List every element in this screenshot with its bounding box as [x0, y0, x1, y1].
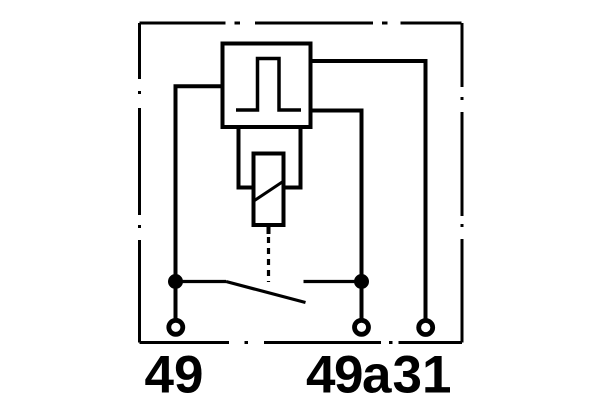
- wire: U1 bottom left pin to coil K1 top-left: [239, 127, 254, 188]
- wire: node 49a down to pin circle: [360, 282, 364, 319]
- relay coil K1 diagonal stroke: [255, 182, 284, 201]
- wire: U1 lower right pin to junction at terminal 49a: [311, 111, 362, 283]
- svg-text:49: 49: [145, 346, 204, 400]
- mechanical actuation link (dashed): [267, 237, 270, 282]
- terminal 49 pin circle: [169, 320, 183, 334]
- node: junction dot on terminal 49 wire: [168, 274, 183, 289]
- node: junction dot on terminal 49a wire: [354, 274, 369, 289]
- switch S1 fixed contact wire to node 49a: [304, 280, 362, 283]
- svg-text:49a: 49a: [306, 346, 392, 400]
- pulse generator U1 box: [223, 44, 311, 128]
- wire: coil K1 bottom stub: [267, 225, 271, 234]
- relay housing outline: bottom edge (dash-dot): [140, 341, 463, 344]
- relay housing outline: right edge (dash-dot): [461, 23, 464, 343]
- relay coil K1 (box): [254, 154, 284, 226]
- wire: node 49 down to pin circle: [174, 282, 178, 319]
- relay housing outline: left edge (dash-dot): [138, 23, 141, 343]
- relay housing outline: top edge (dash-dot): [140, 22, 463, 25]
- svg-text:31: 31: [393, 346, 452, 400]
- switch S1 common wire from node 49: [176, 280, 227, 283]
- wire: U1 left pin to junction at terminal 49: [176, 86, 223, 282]
- pulse generator U1 waveform symbol: [236, 59, 301, 111]
- wire: U1 bottom right pin to coil K1 top-right: [284, 127, 301, 188]
- terminal 49a pin circle: [355, 320, 369, 334]
- terminal 31 pin circle: [419, 321, 433, 335]
- wire: U1 upper right pin to terminal 31: [311, 61, 426, 319]
- switch S1 movable blade: [226, 282, 306, 303]
